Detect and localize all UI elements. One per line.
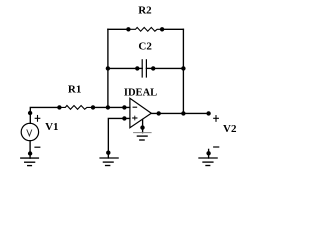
wire: V1 top to R1 <box>30 107 59 123</box>
node: op-amp output pin dot <box>157 111 161 115</box>
node: op-amp minus pin dot <box>122 105 126 109</box>
node: V1 plus pin dot <box>28 111 32 115</box>
node: C2 right junction <box>181 66 185 70</box>
op-amp U1 triangle <box>130 98 151 127</box>
wire: top R2 wire right segment <box>162 28 183 30</box>
source V1 V glyph <box>27 130 32 136</box>
V1 plus sign <box>35 116 40 122</box>
node: C2 left junction <box>106 66 110 70</box>
node: output feedback junction <box>181 111 185 115</box>
V2 plus sign <box>214 116 219 122</box>
wire: V1 bottom to ground <box>29 141 31 158</box>
wire: non-inverting input wire <box>108 118 130 158</box>
op-amp plus input sign <box>133 116 137 120</box>
svg-text:V1: V1 <box>45 121 58 133</box>
wire: feedback right vertical <box>182 29 184 113</box>
wire: V2 ground stub <box>208 149 210 158</box>
ground: V2 reference <box>199 158 217 166</box>
wire: R1 to op-amp inverting input <box>93 106 130 108</box>
node: op-amp plus pin dot <box>122 116 126 120</box>
wire: top R2 wire left segment <box>108 28 128 30</box>
node: V2 plus terminal dot <box>206 111 210 115</box>
ground: non-inverting input <box>100 158 118 166</box>
wire: output <box>151 112 208 114</box>
capacitor C2 <box>135 60 155 77</box>
wire: feedback left vertical <box>107 29 109 107</box>
source V1 circle <box>21 123 38 140</box>
resistor R1 <box>57 105 95 109</box>
wire: C2 left wire <box>108 67 137 69</box>
wire: C2 right wire <box>153 67 183 69</box>
node: ground pin dot (non-inverting input ground) <box>106 151 110 155</box>
wire: op-amp ground pin <box>142 119 144 132</box>
V2 minus sign <box>214 146 219 148</box>
node: V1 ground pin dot <box>28 151 32 155</box>
node: V2 ground pin dot <box>206 151 210 155</box>
V1 minus sign <box>35 146 40 148</box>
op-amp minus input sign <box>133 106 137 108</box>
resistor R2 <box>126 27 164 31</box>
svg-text:C2: C2 <box>138 41 152 53</box>
ground: op-amp bottom pin <box>134 133 152 140</box>
svg-text:R2: R2 <box>138 5 152 17</box>
svg-text:V2: V2 <box>223 123 237 135</box>
svg-text:R1: R1 <box>68 84 81 96</box>
svg-text:IDEAL: IDEAL <box>124 88 157 99</box>
node: op-amp ground pin dot <box>140 125 144 129</box>
ground: V1 reference <box>21 158 39 166</box>
node: feedback junction on input wire <box>106 105 110 109</box>
